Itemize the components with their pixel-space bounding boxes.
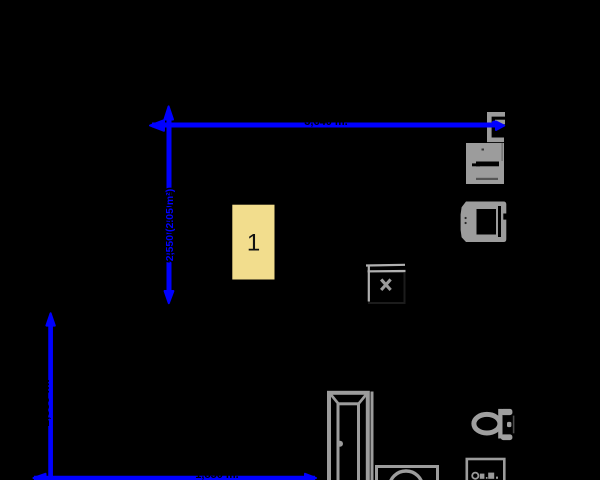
svg-text:1,850 m.: 1,850 m. [195,469,238,480]
svg-text:3,640 m.: 3,640 m. [304,116,347,128]
wire: top horizontal dimension line [152,123,497,128]
boiler (solid gray box with slot) [466,143,504,184]
node B: right arrowhead of top dimension line [496,122,504,131]
washbasin (bottom middle) [377,467,438,480]
door (bottom, vertical) [329,392,372,480]
svg-text:2,550 (2.05 m²): 2,550 (2.05 m²) [164,189,176,261]
tiny label blobs "Om M." [472,473,498,479]
node A: left arrowhead of top dimension line [150,120,164,131]
radiator bracket (top right, drawn under the arrow) [487,112,505,142]
node D: up arrowhead of left dimension line [46,313,54,325]
washing machine (front view with window) [461,202,507,243]
toilet [474,409,514,440]
node E: left arrowhead of bottom dimension line [34,474,46,480]
room label 1 (yellow box) [232,205,274,280]
node C: up arrowhead of vertical dimension line [164,106,173,119]
wire: bottom horizontal dimension line [34,476,315,480]
sink unit with x mark [366,265,406,303]
labelled service box (bottom right) [467,459,505,480]
svg-text:1: 1 [247,230,260,257]
wire: left vertical dimension line [48,318,53,479]
wire: vertical dimension line at x=169 [167,112,172,296]
node C2: down arrowhead of vertical dimension line [165,291,174,303]
node B2: small blue squiggle left of right arrowhead [492,121,497,125]
svg-text:1,850 m.: 1,850 m. [38,379,52,426]
node F: right arrowhead of bottom dimension line [305,474,316,480]
